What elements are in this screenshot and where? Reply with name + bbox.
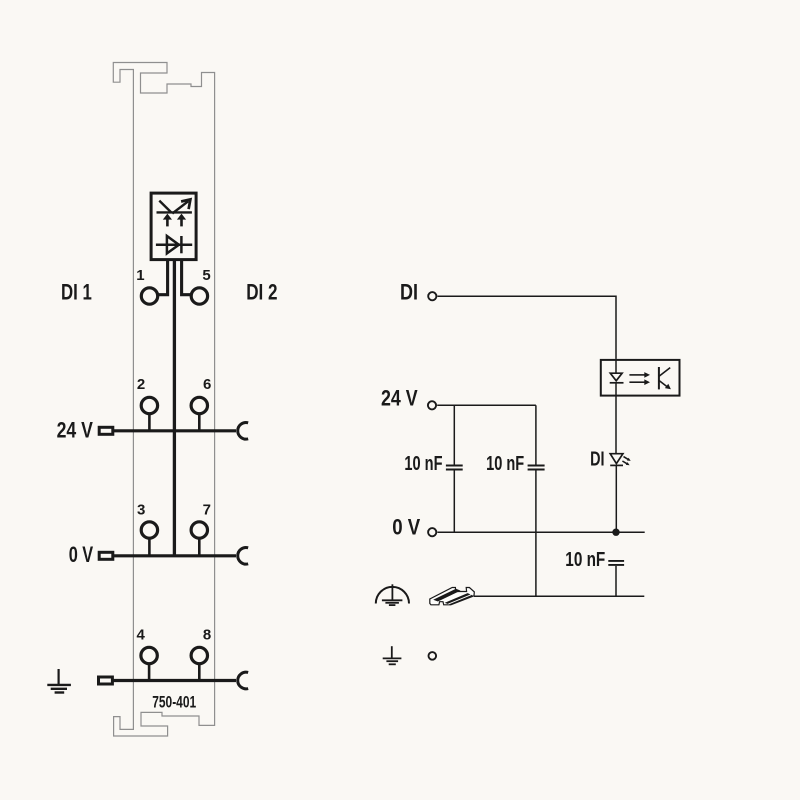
svg-text:DI: DI xyxy=(590,448,604,470)
svg-text:10 nF: 10 nF xyxy=(404,453,442,475)
svg-text:2: 2 xyxy=(137,376,145,393)
svg-text:24 V: 24 V xyxy=(57,418,93,443)
svg-text:7: 7 xyxy=(203,502,211,519)
svg-text:0 V: 0 V xyxy=(69,542,94,567)
svg-text:4: 4 xyxy=(137,627,146,644)
svg-text:DI 2: DI 2 xyxy=(246,279,277,304)
svg-text:750-401: 750-401 xyxy=(152,693,196,711)
svg-text:10 nF: 10 nF xyxy=(565,549,605,571)
svg-text:1: 1 xyxy=(136,267,144,284)
svg-text:DI 1: DI 1 xyxy=(61,279,92,304)
svg-text:5: 5 xyxy=(202,267,210,284)
svg-text:0 V: 0 V xyxy=(392,514,420,539)
svg-text:8: 8 xyxy=(203,627,211,644)
svg-text:6: 6 xyxy=(203,376,211,393)
svg-text:10 nF: 10 nF xyxy=(486,453,524,475)
svg-text:24 V: 24 V xyxy=(381,385,418,410)
svg-text:DI: DI xyxy=(400,280,418,305)
svg-text:3: 3 xyxy=(137,502,145,519)
